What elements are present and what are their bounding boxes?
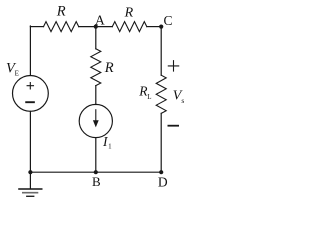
- current source I1 circle: [79, 104, 112, 137]
- wire left branch top (corner to V_E source): [29, 26, 31, 76]
- svg-text:A: A: [95, 12, 105, 27]
- resistor R2: [112, 22, 147, 32]
- svg-text:R: R: [124, 6, 134, 21]
- resistor RL: [156, 75, 166, 113]
- resistor R1: [44, 22, 79, 32]
- node A junction dot: [94, 25, 98, 29]
- bottom-left junction dot (ground node): [28, 170, 32, 174]
- resistor R (middle): [91, 49, 101, 86]
- svg-text:C: C: [163, 13, 172, 28]
- output plus sign (V_s polarity): [168, 61, 178, 71]
- wire V_E source to bottom-left junction: [29, 111, 31, 172]
- svg-text:R: R: [56, 3, 66, 19]
- wire middle resistor to current source I1: [95, 86, 97, 105]
- V_E minus sign: [26, 101, 34, 103]
- wire node A down to middle resistor R: [95, 27, 97, 49]
- wire top-left horizontal from corner to R1: [30, 26, 43, 28]
- ground: [18, 189, 42, 196]
- ground stub wire: [29, 172, 31, 188]
- wire node A to R2: [96, 26, 113, 28]
- voltage source V_E circle: [13, 76, 49, 112]
- wire resistor RL to node D: [160, 113, 162, 172]
- output minus sign (V_s polarity): [168, 125, 178, 127]
- wire node C down to resistor RL: [160, 27, 162, 76]
- svg-text:R: R: [104, 60, 114, 76]
- svg-text:1: 1: [108, 142, 112, 150]
- node D junction dot: [159, 170, 163, 174]
- wire current source I1 to node B: [95, 138, 97, 173]
- svg-text:L: L: [147, 93, 151, 101]
- svg-text:D: D: [158, 175, 168, 190]
- wire R2 to node C: [147, 26, 161, 28]
- wire R1 to node A: [79, 26, 96, 28]
- current source I1 arrow: [93, 109, 99, 127]
- node B junction dot: [94, 170, 98, 174]
- svg-text:E: E: [15, 69, 19, 77]
- wire bottom rail from junction to node D: [30, 171, 161, 173]
- node C junction dot: [159, 25, 163, 29]
- svg-text:B: B: [92, 174, 101, 189]
- svg-text:s: s: [181, 96, 184, 105]
- V_E plus sign: [27, 83, 33, 89]
